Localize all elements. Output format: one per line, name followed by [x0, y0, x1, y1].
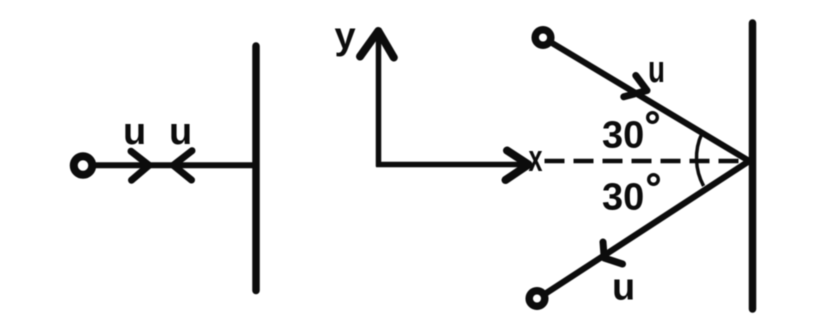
- label u3: speed label on incident ray: [648, 49, 665, 91]
- arrow A4: arrowhead on reflected ray: [603, 242, 623, 264]
- svg-text:30: 30: [602, 115, 644, 157]
- ball B1: left ball (open circle): [74, 156, 93, 175]
- axis X: x-axis line: [376, 162, 523, 168]
- angle arc: arc across both 30 degree angles at vertex: [696, 134, 703, 187]
- wire: dashed normal line from x axis to wall: [545, 159, 751, 164]
- svg-text:30: 30: [602, 177, 644, 219]
- arrow AX: x-axis arrowhead: [506, 151, 529, 181]
- wire: incident ray upper diagonal: [547, 40, 750, 162]
- svg-text:u: u: [123, 111, 146, 153]
- arrow AY: y-axis arrowhead: [360, 31, 394, 58]
- axis Y: y-axis line: [376, 34, 382, 167]
- svg-text:u: u: [612, 267, 635, 309]
- label u1: speed label over first arrow: [123, 111, 146, 153]
- wire: left figure horizontal line: [90, 162, 254, 168]
- ball B2: upper ball (open circle): [535, 30, 551, 46]
- arrow A2: left-pointing velocity arrowhead on left line: [173, 151, 192, 180]
- svg-text:y: y: [335, 16, 356, 58]
- label u2: speed label over second arrow: [169, 111, 192, 153]
- ball B3: lower ball (open circle): [529, 291, 545, 307]
- label y: y-axis label: [335, 16, 356, 58]
- wall W1: left wall vertical line: [252, 46, 260, 291]
- svg-text:u: u: [648, 49, 665, 91]
- label x: x-axis label: [529, 138, 543, 180]
- svg-text:u: u: [169, 111, 192, 153]
- svg-text:x: x: [529, 138, 543, 180]
- arrow A1: right-pointing velocity arrowhead on left line: [131, 151, 149, 180]
- wire: reflected ray lower diagonal: [541, 161, 750, 297]
- wall W2: right wall vertical line: [749, 23, 757, 309]
- label ang2: lower 30 degree label: [602, 175, 658, 219]
- label ang1: upper 30 degree label: [602, 113, 657, 157]
- label u4: speed label on reflected ray: [612, 267, 635, 309]
- arrow A3: arrowhead on incident ray: [624, 76, 647, 97]
